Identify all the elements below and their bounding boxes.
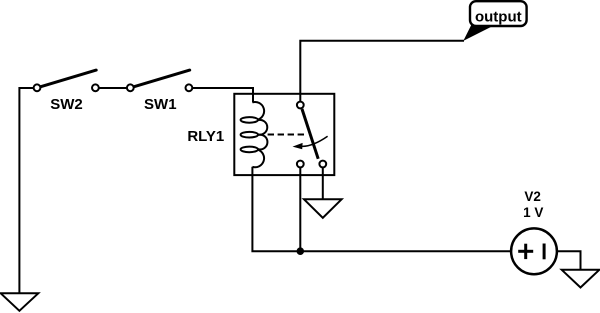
svg-text:V2: V2	[524, 189, 541, 204]
svg-text:1 V: 1 V	[523, 205, 543, 220]
svg-text:SW2: SW2	[50, 96, 83, 113]
svg-text:SW1: SW1	[144, 96, 177, 113]
svg-text:output: output	[475, 9, 522, 26]
svg-text:RLY1: RLY1	[187, 128, 224, 145]
